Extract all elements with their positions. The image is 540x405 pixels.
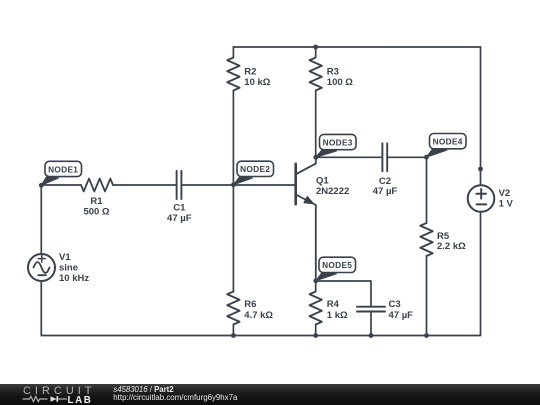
svg-text:R1: R1	[90, 196, 103, 207]
svg-text:NODE5: NODE5	[322, 260, 352, 270]
svg-text:R4: R4	[327, 299, 340, 310]
capacitor C2	[373, 143, 398, 197]
svg-text:47 µF: 47 µF	[373, 186, 398, 197]
svg-text:NODE2: NODE2	[240, 164, 270, 174]
node NODE2	[231, 161, 274, 187]
svg-text:R2: R2	[244, 66, 256, 77]
wire R1 to C1	[113, 184, 176, 186]
junction bottom C3	[369, 333, 374, 338]
wire V2 top	[480, 47, 482, 185]
node NODE5	[313, 257, 355, 283]
node NODE3	[313, 134, 356, 159]
wire C1 to NODE2	[182, 184, 233, 186]
wire V1 top	[40, 185, 42, 254]
svg-text:100 Ω: 100 Ω	[327, 77, 353, 88]
wire collector to C2	[316, 156, 382, 158]
voltage source V2	[468, 185, 514, 212]
wire NODE5 to C3	[316, 281, 371, 306]
footer bar	[0, 384, 540, 405]
svg-text:47 µF: 47 µF	[167, 213, 192, 224]
svg-text:2N2222: 2N2222	[316, 186, 349, 197]
resistor R4	[310, 281, 349, 336]
svg-text:C1: C1	[173, 203, 186, 214]
transistor Q1	[296, 157, 350, 281]
svg-text:V2: V2	[499, 188, 511, 199]
junction bottom R4	[313, 333, 318, 338]
wire V2 bottom	[41, 212, 480, 336]
voltage source V1	[28, 252, 89, 284]
svg-text:NODE3: NODE3	[323, 137, 353, 147]
node NODE1	[39, 161, 82, 187]
svg-text:47 µF: 47 µF	[389, 310, 414, 321]
resistor R1	[81, 179, 113, 218]
wire C2 to NODE4	[388, 156, 426, 158]
svg-text:1 kΩ: 1 kΩ	[327, 310, 348, 321]
junction bottom R6	[231, 333, 236, 338]
svg-text:sine: sine	[59, 263, 78, 274]
svg-text:R3: R3	[327, 66, 339, 77]
svg-text:R6: R6	[244, 299, 256, 310]
footer title text	[113, 385, 173, 394]
wire top rail	[233, 46, 480, 48]
wire NODE1 to R1	[41, 184, 81, 186]
resistor R2	[227, 47, 271, 185]
resistor R5	[420, 157, 466, 335]
svg-text:LAB: LAB	[68, 395, 93, 405]
wire V1 bottom	[40, 281, 42, 336]
svg-text:10 kΩ: 10 kΩ	[244, 77, 270, 88]
footer url text	[113, 393, 237, 402]
junction above V2	[478, 167, 483, 172]
svg-text:1 V: 1 V	[499, 199, 514, 210]
svg-text:2.2 kΩ: 2.2 kΩ	[437, 241, 466, 252]
svg-text:NODE1: NODE1	[48, 164, 78, 174]
node NODE4	[424, 134, 466, 160]
CircuitLab logo	[0, 384, 110, 405]
svg-text:NODE4: NODE4	[433, 137, 463, 147]
svg-text:500 Ω: 500 Ω	[83, 207, 109, 218]
capacitor C1	[167, 171, 192, 224]
svg-text:C3: C3	[389, 299, 401, 310]
junction top rail / R3	[313, 45, 318, 50]
junction bottom R5	[424, 333, 429, 338]
svg-text:4.7 kΩ: 4.7 kΩ	[244, 310, 273, 321]
resistor R6	[227, 185, 273, 336]
wire C3 bottom	[370, 313, 372, 336]
capacitor C3	[357, 299, 413, 321]
wire base	[233, 184, 294, 186]
resistor R3	[310, 47, 354, 157]
svg-text:10 kHz: 10 kHz	[59, 273, 89, 284]
